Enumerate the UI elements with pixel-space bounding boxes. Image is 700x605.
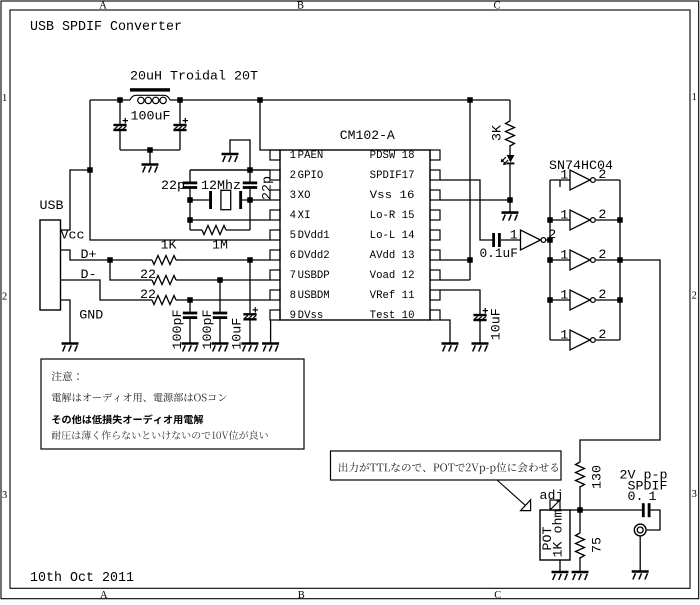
svg-text:VRef 11: VRef 11 (370, 290, 415, 302)
svg-text:DVss: DVss (298, 310, 324, 322)
svg-text:PAEN: PAEN (298, 150, 324, 162)
svg-text:D+: D+ (81, 247, 97, 262)
svg-text:3: 3 (290, 190, 296, 202)
svg-text:7: 7 (290, 270, 296, 282)
svg-text:1K: 1K (161, 237, 177, 252)
svg-text:1: 1 (2, 93, 7, 104)
svg-text:D-: D- (81, 267, 97, 282)
svg-text:CM102-A: CM102-A (340, 128, 395, 143)
svg-text:B: B (297, 0, 304, 11)
svg-text:0.: 0. (628, 489, 644, 504)
svg-text:2: 2 (290, 170, 296, 182)
svg-text:C: C (494, 590, 501, 600)
svg-text:2: 2 (598, 327, 606, 342)
svg-text:GND: GND (79, 307, 103, 322)
svg-text:10uF: 10uF (230, 318, 245, 350)
svg-text:9: 9 (290, 310, 296, 322)
svg-text:4: 4 (290, 210, 296, 222)
svg-text:0.1uF: 0.1uF (480, 246, 518, 261)
svg-text:1: 1 (560, 207, 568, 222)
svg-text:3K: 3K (490, 125, 505, 141)
svg-text:A: A (99, 0, 107, 11)
svg-text:2: 2 (2, 292, 7, 303)
svg-text:100pF: 100pF (170, 309, 185, 349)
svg-text:Lo-R 15: Lo-R 15 (370, 210, 415, 222)
svg-text:B: B (298, 590, 305, 600)
svg-text:100uF: 100uF (131, 108, 171, 123)
svg-text:1: 1 (560, 167, 568, 182)
svg-text:USB SPDIF Converter: USB SPDIF Converter (30, 19, 182, 35)
svg-text:2: 2 (598, 207, 606, 222)
svg-text:1: 1 (560, 287, 568, 302)
svg-text:22p: 22p (161, 178, 185, 193)
svg-text:1M: 1M (212, 237, 228, 252)
svg-text:USB: USB (40, 198, 64, 213)
svg-text:2: 2 (692, 291, 697, 302)
svg-text:5: 5 (290, 230, 296, 242)
svg-text:2: 2 (598, 167, 606, 182)
svg-text:GPIO: GPIO (298, 170, 324, 182)
svg-text:10uF: 10uF (488, 308, 503, 340)
svg-text:1: 1 (649, 489, 657, 504)
svg-text:3: 3 (2, 490, 7, 501)
svg-text:USBDM: USBDM (298, 290, 330, 302)
svg-text:XI: XI (298, 210, 311, 222)
svg-text:DVdd1: DVdd1 (298, 230, 330, 242)
svg-text:Voad 12: Voad 12 (370, 270, 415, 282)
svg-text:USBDP: USBDP (298, 270, 330, 282)
svg-text:22: 22 (140, 287, 156, 302)
svg-text:100pF: 100pF (200, 309, 215, 349)
svg-text:1: 1 (560, 247, 568, 262)
svg-text:1K ohm: 1K ohm (551, 509, 566, 557)
svg-text:DVdd2: DVdd2 (298, 250, 330, 262)
svg-text:XO: XO (298, 190, 311, 202)
svg-text:SPDIF17: SPDIF17 (370, 170, 415, 182)
svg-text:A: A (100, 590, 108, 600)
svg-text:130: 130 (589, 465, 604, 489)
svg-text:2: 2 (598, 247, 606, 262)
svg-text:PDSW 18: PDSW 18 (370, 150, 415, 162)
svg-text:6: 6 (290, 250, 296, 262)
svg-text:C: C (493, 0, 500, 11)
svg-text:22: 22 (140, 267, 156, 282)
svg-text:20uH Troidal 20T: 20uH Troidal 20T (130, 68, 258, 83)
svg-text:1: 1 (510, 227, 518, 242)
svg-text:8: 8 (290, 290, 296, 302)
svg-text:Vss 16: Vss 16 (370, 190, 415, 202)
svg-text:10th Oct 2011: 10th Oct 2011 (30, 570, 134, 586)
svg-text:75: 75 (589, 537, 604, 553)
svg-text:1: 1 (290, 150, 296, 162)
svg-text:Vcc: Vcc (61, 228, 85, 243)
svg-text:3: 3 (692, 489, 697, 500)
svg-text:Lo-L 14: Lo-L 14 (370, 230, 415, 242)
svg-text:2: 2 (598, 287, 606, 302)
svg-text:Test 10: Test 10 (370, 310, 415, 322)
svg-text:AVdd 13: AVdd 13 (370, 250, 415, 262)
svg-text:1: 1 (560, 327, 568, 342)
svg-text:1: 1 (692, 92, 697, 103)
